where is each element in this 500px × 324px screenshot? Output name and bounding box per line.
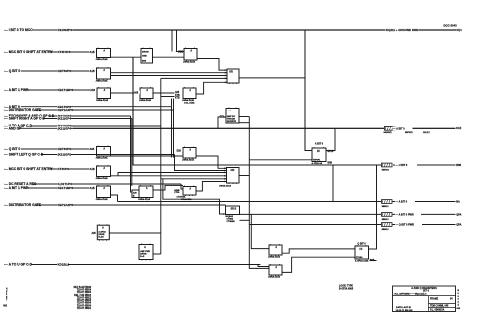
svg-text:— AND GP: — AND GP (5, 127, 23, 131)
wire Q BIT 0 input (4, 70, 97, 72)
svg-text:J0964-019A: J0964-019A (96, 99, 108, 102)
svg-text:MB013: MB013 (382, 206, 390, 208)
wire B4 out down to OR1 in1 (197, 59, 227, 71)
wire D18 out to OR2 top (196, 156, 227, 168)
gate B9 (MCC shift lower) (97, 166, 111, 177)
wire AND GP input / A BIT 0 out bus (4, 127, 456, 129)
svg-text:KB71A2P4: KB71A2P4 (58, 108, 74, 112)
wire to OR2 in4 (161, 178, 227, 180)
svg-text:J0964-019A: J0964-019A (96, 157, 108, 160)
wire vertical pair below B7 (171, 99, 173, 107)
wire QFF bottom stub (370, 260, 377, 262)
svg-text:A1B: A1B (90, 51, 95, 54)
gate B7 (183, 88, 196, 99)
wire SRB out to A BIT 0 PWR line (239, 213, 456, 215)
svg-text:— Q BIT 0: — Q BIT 0 (5, 147, 21, 151)
wire A BIT 1 PWR lower input (4, 187, 97, 189)
svg-text:REL 7-09 45812: REL 7-09 45812 (74, 294, 92, 297)
wire A BIT 0 input (4, 106, 172, 108)
svg-text:— Q BIT 0: — Q BIT 0 (5, 69, 21, 73)
svg-text:— A BIT 0 PWR: — A BIT 0 PWR (396, 214, 414, 217)
svg-text:(K21)GP4: (K21)GP4 (58, 117, 72, 121)
svg-text:A1B: A1B (90, 70, 95, 73)
gate B3 (Q bit 0) (97, 68, 111, 79)
wire A TO U GP C-D input (4, 264, 260, 266)
wire APD2 out to x160.8 (153, 253, 161, 255)
wire shift-right vertical x131.8 (131, 119, 133, 187)
wire vertical x376.5 out1 to QFF (369, 165, 377, 249)
title block (393, 286, 456, 312)
svg-text:CT-A-019A: CT-A-019A (181, 198, 192, 201)
svg-text:— MCC BIT 0 SHIFT AT ENTRY: — MCC BIT 0 SHIFT AT ENTRY (5, 50, 54, 54)
pin A1B of gate B10 (90, 186, 97, 189)
pin A1B of gate B9 (90, 167, 97, 170)
svg-text:KTB: KTB (175, 98, 180, 100)
wire SHIFT LEFT Q GP C-D input (4, 154, 175, 156)
wire Q1 out to QFF in1 (282, 249, 355, 253)
pin (K21 of gate B4 (176, 50, 184, 53)
svg-text:OR: OR (229, 71, 233, 74)
gate B11 (139, 186, 153, 198)
svg-text:KD1BL2: KD1BL2 (58, 263, 70, 267)
svg-text:NBP3S: NBP3S (382, 170, 390, 172)
svg-text:A05: A05 (90, 148, 95, 151)
wire vertical x305 top-line to FFA (305, 30, 312, 151)
flip-flop QFF Q BIT 0 (355, 246, 369, 259)
svg-text:A05: A05 (134, 91, 139, 94)
wire exchange vertical x130.5 (131, 116, 133, 192)
svg-text:— I BIT 3 TO MCO: — I BIT 3 TO MCO (5, 28, 34, 32)
gate B8 (Q bit 0 lower) (97, 147, 111, 157)
svg-text:J0964-019A: J0964-019A (96, 198, 108, 201)
svg-text:KB71A2P4: KB71A2P4 (58, 203, 74, 207)
svg-text:<K.L-03F73MM>——MQ3-1(Z)-C: <K.L-03F73MM>——MQ3-1(Z)-C (394, 293, 427, 296)
wire B10 out to A BIT 0 PWR net (111, 195, 118, 202)
label U BIT 0 out1 (395, 163, 417, 167)
wire inverter outs to vertical x249.3 (239, 116, 249, 118)
svg-text:— A BIT 1 PWR: — A BIT 1 PWR (5, 186, 30, 190)
svg-text:— A TO U GP C-D: — A TO U GP C-D (5, 263, 33, 267)
svg-text:— A BIT 0: — A BIT 0 (393, 128, 405, 131)
module B2 DRUM GND B08 (141, 49, 153, 64)
wire B6 out to B7 (153, 92, 175, 94)
amp APD2 A-GF3A DRIVE B+D2 (139, 245, 153, 260)
svg-text:A1B: A1B (90, 187, 95, 190)
svg-text:B-GF3A 6095: B-GF3A 6095 (339, 287, 354, 290)
gate B4 (184, 49, 197, 61)
bracket connector out3 (381, 212, 393, 217)
svg-text:CT00: CT00 (174, 192, 180, 194)
wire y215 to Q1 (251, 214, 269, 248)
svg-text:LOGIC TYPE: LOGIC TYPE (339, 285, 353, 287)
wire vertical x133 to bus y165 (133, 57, 381, 165)
svg-text:KBT30P4: KBT30P4 (58, 69, 72, 73)
svg-text:12-03-71 EM-192: 12-03-71 EM-192 (396, 310, 414, 312)
svg-text:CT0A0: CT0A0 (356, 256, 363, 259)
svg-text:KQ211 + GROUND DRM: KQ211 + GROUND DRM (386, 28, 419, 32)
svg-text:J0964-019A: J0964-019A (139, 99, 151, 102)
wire B1 out to DRUM (111, 56, 142, 58)
bracket connector A BIT 0 net (384, 126, 396, 131)
svg-text:DRUM: DRUM (142, 51, 149, 53)
svg-text:9BP3Z1: 9BP3Z1 (405, 132, 413, 134)
label A BIT 0 on KAZ line (393, 126, 413, 130)
svg-text:KB1T1BP4: KB1T1BP4 (58, 186, 74, 190)
svg-text:— A BIT 1 PWR: — A BIT 1 PWR (5, 88, 30, 92)
svg-text:— Q BIT 0 PWR: — Q BIT 0 PWR (396, 224, 415, 227)
inverter AMP DC TRIODE (226, 109, 239, 124)
wire to OR2 in3b (118, 175, 227, 177)
svg-text:KT30P4: KT30P4 (58, 167, 69, 171)
svg-text:B0B: B0B (328, 163, 333, 165)
wire DRUM out to B4 (153, 56, 185, 58)
svg-text:A1B: A1B (90, 168, 95, 171)
svg-text:715-07 45834: 715-07 45834 (77, 304, 92, 307)
svg-text:— DISTRIBUTOR GATE: — DISTRIBUTOR GATE (5, 203, 42, 207)
svg-text:DOC 8043: DOC 8043 (444, 24, 458, 28)
wire bus to OR1 in3 (111, 75, 228, 77)
gate B10 (A bit 1 pwr lower) (97, 186, 111, 198)
svg-text:715-07 45834: 715-07 45834 (77, 302, 92, 305)
wire DC RESET A REG input (4, 183, 181, 185)
svg-text:FRAME: FRAME (430, 298, 439, 301)
svg-text:A05: A05 (175, 91, 180, 94)
svg-text:MB013: MB013 (382, 219, 390, 221)
svg-text:KB1T1BP4: KB1T1BP4 (58, 88, 74, 92)
pin A1B of gate B1 (90, 50, 97, 53)
pin A05 of gate B8 (90, 147, 97, 150)
pin A1B of gate B5 (90, 88, 97, 91)
svg-text:NA: NA (456, 201, 460, 204)
svg-text:KAZ: KAZ (456, 127, 462, 130)
register SR B (226, 206, 240, 215)
svg-text:94230Z1: 94230Z1 (384, 131, 393, 134)
connector block on gate B11 (132, 190, 139, 198)
wire DISTRIBUTOR GATE lower input (4, 204, 226, 206)
wire MCC BIT 0 SHIFT AT ENTRY lower input (4, 168, 97, 170)
svg-text:TEM CONML 045: TEM CONML 045 (430, 304, 449, 307)
svg-text:Q BIT 0: Q BIT 0 (357, 242, 366, 245)
bracket connector out2 (381, 199, 393, 204)
svg-text:INVERTR: INVERTR (227, 121, 237, 123)
label A BIT 0 PWR out3 (395, 212, 421, 216)
svg-text:K91302P4: K91302P4 (58, 28, 73, 32)
pin A05 of gate B6 (134, 91, 140, 94)
pin D18 of gate D18 (176, 149, 182, 152)
svg-text:715-07 45814: 715-07 45814 (77, 299, 92, 302)
wire B5 out to B6 (111, 92, 135, 94)
pin A1B of gate B3 (90, 69, 97, 72)
wire DC reset into B12 (181, 184, 183, 189)
gate Q1 (269, 245, 282, 255)
svg-text:EF1B: EF1B (328, 151, 334, 153)
label KQ211 GROUND DRM on top wire (386, 28, 420, 31)
bracket connector out1 (381, 163, 393, 168)
svg-text:715-07 45821: 715-07 45821 (77, 307, 92, 310)
wire bus to OR1 in2 (111, 72, 228, 74)
wire V5 tap to B7 row2 (161, 96, 175, 98)
svg-text:J0964-019A: J0964-019A (138, 198, 150, 201)
svg-text:KTB: KTB (175, 95, 180, 97)
wire y199 corner to SRB (163, 179, 226, 214)
svg-text:J0964-019A: J0964-019A (268, 276, 280, 279)
wire vertical x160.8 long (160, 78, 162, 254)
svg-text:T0P0P1: T0P0P1 (313, 159, 321, 161)
wire DISTRIBUTOR GATE input (4, 109, 174, 111)
svg-text:P.L. 5B09Z0A: P.L. 5B09Z0A (430, 309, 445, 312)
svg-text:— DISTRIBUTOR GATE: — DISTRIBUTOR GATE (5, 108, 42, 112)
svg-text:GND: GND (142, 56, 147, 58)
svg-text:J0964-019A: J0964-019A (96, 58, 108, 61)
amp APD1 A-GF3A DRIVE B+D2 (97, 225, 109, 240)
svg-text:J0964-019A: J0964-019A (182, 159, 194, 162)
svg-text:A1B: A1B (90, 89, 95, 92)
svg-text:A-GF3A-019A: A-GF3A-019A (355, 260, 369, 263)
svg-text:QPA: QPA (456, 213, 461, 216)
wire A BIT 1 PWR input (4, 89, 97, 91)
or-gate OR1 (227, 69, 239, 83)
svg-text:COL-019A: COL-019A (184, 101, 195, 104)
wire U BIT 0 out line (393, 164, 456, 166)
gate B1 (MCC bit 0 shift entry) (97, 49, 111, 58)
svg-text:MB013: MB013 (382, 229, 390, 231)
wire FFA lower input from vertical (249, 159, 312, 161)
wire FFA right pin up to bus KAZ (326, 128, 335, 150)
pin EF1 of inverter (220, 115, 226, 118)
svg-text:A05: A05 (92, 232, 97, 235)
svg-text:715-07 45834: 715-07 45834 (77, 289, 92, 292)
svg-text:· ·: · · (229, 110, 232, 113)
svg-text:QPA: QPA (456, 224, 461, 227)
wire U TO A GP C-D input (4, 125, 161, 127)
gate B12 (183, 187, 196, 196)
bracket connector out4 (381, 222, 393, 227)
wire A BIT 0 out2 line (118, 201, 456, 203)
wire I BIT 3 TO MCO / top net (4, 29, 456, 31)
svg-text:D18: D18 (177, 151, 182, 153)
wire B8 out to D18 (111, 155, 184, 157)
wire OR1 out to node V305 (239, 77, 305, 79)
wire A TO U into Q2 (258, 265, 269, 267)
svg-text:12L/1Z: 12L/1Z (423, 132, 430, 134)
wire EXCHANGE A AND Q GP C-D input (4, 115, 131, 117)
wire bus tap x333 down to out2 (332, 165, 334, 202)
svg-text:J0964-019A: J0964-019A (96, 177, 108, 180)
wire taps top line to B4 (171, 30, 173, 52)
svg-text:715-07 45812: 715-07 45812 (77, 296, 92, 299)
svg-text:BIT 0: BIT 0 (423, 290, 430, 293)
wire Q2 out to QFF in2 (282, 257, 355, 272)
wire vertical x249.3 long (249, 117, 269, 269)
svg-text:OR: OR (231, 169, 235, 172)
svg-text:(K21)GP4: (K21)GP4 (58, 126, 72, 130)
svg-text:B3B: B3B (456, 164, 461, 167)
flip-flop FFA A BIT 0 (312, 148, 326, 162)
svg-text:— MCC BIT 0 SHIFT AT ENTRY: — MCC BIT 0 SHIFT AT ENTRY (5, 167, 54, 171)
svg-text:CT0B2B: CT0B2B (227, 221, 236, 223)
gate Q2 (269, 265, 282, 275)
svg-text:(K21)GP2: (K21)GP2 (58, 153, 72, 157)
label A BIT 0 out2 (395, 200, 415, 204)
wire APD1 out (109, 232, 161, 234)
wire B11 out to B12 top (153, 185, 183, 190)
svg-text:715-07 45834: 715-07 45834 (77, 291, 92, 294)
or-gate OR2 (227, 168, 240, 184)
wire vertical x218 bus to EF1 (218, 117, 222, 128)
svg-text:J0964-019A: J0964-019A (96, 80, 108, 83)
svg-text:SR B: SR B (231, 208, 237, 211)
wire vertical pair to D18 area (171, 107, 173, 158)
wire MCC BIT 0 SHIFT AT ENTRY input (4, 51, 97, 53)
svg-text:J0964-019A: J0964-019A (183, 61, 195, 64)
wire to OR1 in4 (161, 77, 227, 79)
svg-text:J0964-019A: J0964-019A (219, 184, 231, 187)
wire SHIFT RIGHT A GP C-D input (4, 118, 132, 120)
wire SRB out2 to vertical (240, 219, 250, 221)
wire B9 out jog to OR2 in2 (111, 173, 227, 176)
svg-text:B+D2: B+D2 (98, 237, 104, 239)
svg-text:— SHIFT LEFT Q GP C-D: — SHIFT LEFT Q GP C-D (5, 153, 44, 157)
label Q BIT 0 PWR out4 (395, 223, 422, 227)
svg-text:— A BIT 0: — A BIT 0 (396, 201, 408, 204)
wire B7 out to OR1 in5 (196, 82, 227, 94)
gate B6 (140, 88, 153, 99)
svg-text:KT3F0P4: KT3F0P4 (58, 50, 71, 54)
wire x174.5 to OR2 in1 (175, 155, 227, 171)
svg-text:— SHIFT RIGHT A GP C-D: — SHIFT RIGHT A GP C-D (5, 117, 46, 121)
gate B5 (A bit 1 pwr) (97, 88, 111, 99)
wire Q BIT 0 PWR out4 line (249, 224, 455, 226)
svg-text:KBT30P4: KBT30P4 (58, 147, 72, 151)
svg-text:— U BIT 0: — U BIT 0 (396, 164, 408, 167)
wire OR2 out to vertical (239, 175, 249, 177)
svg-text:KQ4: KQ4 (457, 29, 463, 32)
svg-text:DATE LAST EI: DATE LAST EI (396, 306, 411, 309)
gate D18 (183, 148, 196, 159)
svg-text:A BIT 0: A BIT 0 (315, 143, 324, 146)
wire Q BIT 0 lower input (4, 148, 97, 150)
wire B12 out up to OR2 in5 (196, 182, 227, 192)
svg-text:B+D: B+D (140, 256, 145, 258)
svg-text:J0964-019A: J0964-019A (268, 256, 280, 259)
